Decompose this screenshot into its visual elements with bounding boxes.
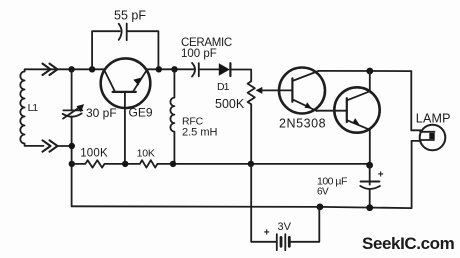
wire cap to diode xyxy=(200,68,219,70)
svg-text:30 pF: 30 pF xyxy=(86,106,117,120)
node junction feedback-left xyxy=(89,66,95,72)
node junction battery-right rail xyxy=(317,204,324,211)
potentiometer 500K xyxy=(248,81,255,164)
wire diode to pot corner xyxy=(231,70,251,82)
svg-text:GE9: GE9 xyxy=(129,106,153,120)
node junction emitter rail xyxy=(366,162,373,169)
wire pot wiper to 2N5308 base xyxy=(261,89,293,91)
wire bottom rail xyxy=(72,206,412,208)
transistor 2N5308 emitter lead xyxy=(293,99,317,111)
wire top rail right of GE9 xyxy=(146,68,194,70)
svg-text:2.5 mH: 2.5 mH xyxy=(182,127,218,139)
arrowhead pot wiper xyxy=(256,87,263,94)
arrowhead GE9 emitter xyxy=(133,78,141,86)
node junction top-left xyxy=(68,66,74,72)
battery 3V xyxy=(277,234,290,250)
wire Q2 collector vertical xyxy=(369,71,371,91)
svg-text:100 µF: 100 µF xyxy=(317,175,347,187)
svg-text:3V: 3V xyxy=(278,221,292,233)
transistor Q2 collector lead xyxy=(347,91,370,100)
wire right rail top xyxy=(410,71,412,130)
transistor Q2 base bar xyxy=(346,98,348,122)
transistor 2N5308 base bar xyxy=(291,78,293,101)
arrowhead 2N5308 emitter xyxy=(305,102,312,108)
node junction chevron-bottom xyxy=(69,143,75,149)
transistor 2N5308 collector lead xyxy=(293,71,319,81)
chevron arrows top wire xyxy=(43,64,58,75)
inductor RFC 2.5 mH xyxy=(170,69,174,164)
wire Q2 emitter vertical xyxy=(369,130,371,164)
wire lamp bottom stub xyxy=(412,140,421,142)
svg-text:+: + xyxy=(264,227,270,238)
svg-text:+: + xyxy=(378,170,384,181)
inductor L1 xyxy=(20,69,43,146)
svg-text:10K: 10K xyxy=(137,147,155,159)
transistor GE9 collector lead xyxy=(104,70,115,91)
wire top rail left xyxy=(43,68,106,70)
node junction pot bottom xyxy=(248,161,254,167)
wire battery right up to rail xyxy=(290,207,319,242)
svg-text:6V: 6V xyxy=(317,187,329,198)
svg-text:D1: D1 xyxy=(217,81,230,93)
chevron arrows bottom wire xyxy=(43,140,58,151)
transistor U1 GE9 circle xyxy=(101,58,151,108)
capacitor ceramic 100 pF xyxy=(192,63,199,77)
svg-text:100 pF: 100 pF xyxy=(181,48,217,60)
svg-text:SeekIC.com: SeekIC.com xyxy=(362,234,455,253)
diode D1 xyxy=(219,63,231,76)
transistor Q1 2N5308 circle xyxy=(279,68,325,114)
svg-text:100K: 100K xyxy=(80,147,108,159)
svg-text:L1: L1 xyxy=(28,102,39,114)
capacitor 100 uF xyxy=(360,164,380,208)
capacitor 55 pF xyxy=(119,24,127,41)
wire 2N5308 collector to top-right rail xyxy=(319,70,412,72)
arrowhead of 30 pF xyxy=(77,104,85,112)
wire bottom chevron to junction xyxy=(57,145,72,147)
capacitor 55 pF feedback loop wires xyxy=(92,31,158,69)
wire mid rail with resistors xyxy=(72,160,370,167)
wire lamp top stub xyxy=(411,129,421,131)
node junction cap bottom rail xyxy=(366,204,373,211)
wire right rail bottom xyxy=(411,141,413,208)
wire left vertical xyxy=(71,69,73,206)
node junction RFC bottom xyxy=(170,161,176,167)
node junction RFC top xyxy=(171,66,177,72)
node junction mid-rail-left xyxy=(69,161,75,167)
transistor Q2 emitter lead xyxy=(347,120,370,130)
svg-text:LAMP: LAMP xyxy=(416,111,451,125)
svg-text:500K: 500K xyxy=(215,97,245,111)
svg-text:2N5308: 2N5308 xyxy=(279,117,326,131)
svg-text:55 pF: 55 pF xyxy=(114,9,146,23)
node junction collector rail xyxy=(366,68,373,75)
wire battery left drop xyxy=(251,164,276,242)
lamp xyxy=(420,125,446,151)
transistor GE9 base bar xyxy=(113,91,136,93)
capacitor 30 pF variable xyxy=(63,107,83,118)
transistor Q2 circle xyxy=(334,87,379,132)
wire GE9 base lead down xyxy=(124,93,126,164)
wire 2N5308 emitter to Q2 base xyxy=(317,110,347,112)
arrowhead Q2 emitter xyxy=(352,118,359,125)
node junction base-lead rail xyxy=(122,161,128,167)
node junction feedback-right xyxy=(156,66,162,72)
transistor GE9 emitter lead xyxy=(133,70,147,91)
